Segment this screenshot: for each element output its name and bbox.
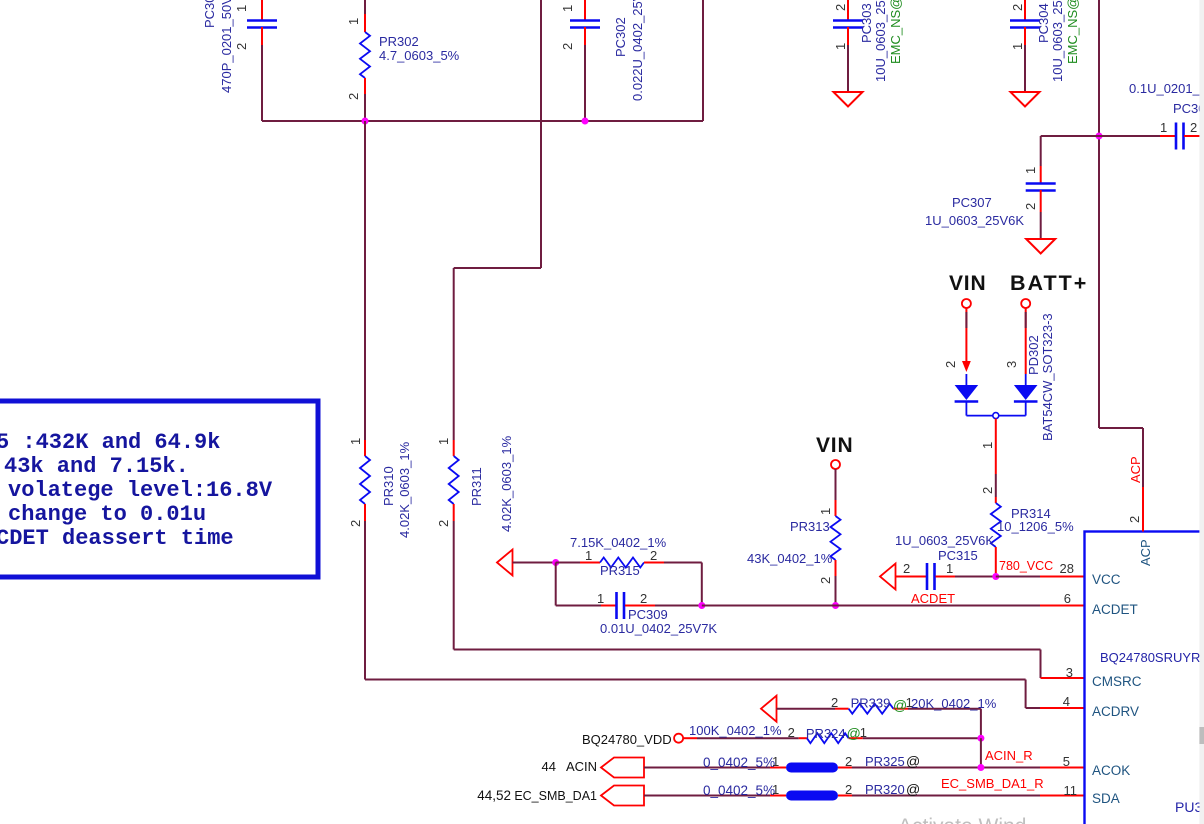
svg-text:2: 2 bbox=[833, 4, 848, 11]
capacitor PC315 1U_0603_25V6K bbox=[895, 533, 996, 590]
net arrow left of PR315 bbox=[497, 550, 513, 576]
svg-text:1: 1 bbox=[560, 5, 575, 12]
svg-text:20K_0402_1%: 20K_0402_1% bbox=[911, 696, 997, 711]
svg-text:44,52: 44,52 bbox=[477, 788, 511, 803]
resistor PR325 0_0402_5% zero-ohm bbox=[644, 753, 1040, 773]
svg-text:PC304: PC304 bbox=[1036, 3, 1051, 43]
svg-text:5: 5 bbox=[1063, 754, 1070, 769]
svg-text:3: 3 bbox=[1004, 361, 1019, 368]
svg-text:2: 2 bbox=[650, 548, 657, 563]
resistor PR310 4.02K_0603_1% bbox=[348, 121, 412, 680]
svg-text:3: 3 bbox=[1066, 665, 1073, 680]
svg-text:1: 1 bbox=[1023, 167, 1038, 174]
svg-text:CDET deassert time: CDET deassert time bbox=[0, 526, 234, 551]
capacitor PC301 470P_0201_50V bbox=[202, 0, 277, 121]
svg-text:PC309: PC309 bbox=[628, 607, 668, 622]
resistor PR302 4.7_0603_5% bbox=[346, 0, 460, 121]
svg-text:1: 1 bbox=[346, 18, 361, 25]
svg-text:BAT54CW_SOT323-3: BAT54CW_SOT323-3 bbox=[1040, 313, 1055, 441]
svg-text:2: 2 bbox=[831, 695, 838, 710]
svg-text:2: 2 bbox=[1023, 203, 1038, 210]
svg-text:BQ24780SRUYR: BQ24780SRUYR bbox=[1100, 650, 1200, 665]
op-amp U1 IC BQ24780SRUYR box bbox=[1085, 532, 1204, 824]
svg-text:0_0402_5%: 0_0402_5% bbox=[703, 755, 775, 770]
wire trunk x=1099 from top to ACP corner bbox=[1099, 0, 1143, 487]
svg-text:2: 2 bbox=[845, 754, 852, 769]
pin 5 ACOK stub bbox=[1040, 767, 1084, 769]
pin name SDA bbox=[1064, 783, 1120, 806]
svg-text:PR325: PR325 bbox=[865, 754, 905, 769]
note text line4 bbox=[8, 502, 206, 527]
svg-text:470P_0201_50V: 470P_0201_50V bbox=[219, 0, 234, 93]
svg-text:2: 2 bbox=[640, 591, 647, 606]
resistor PR313 43K_0402_1% bbox=[747, 469, 841, 606]
svg-text:volatege level:16.8V: volatege level:16.8V bbox=[8, 478, 273, 503]
svg-text:2: 2 bbox=[1010, 4, 1025, 11]
svg-text:4.7_0603_5%: 4.7_0603_5% bbox=[379, 48, 460, 63]
svg-text:0.022U_0402_25V: 0.022U_0402_25V bbox=[630, 0, 645, 101]
resistor PR314 10_1206_5% bbox=[991, 503, 1074, 577]
svg-text:2: 2 bbox=[845, 782, 852, 797]
svg-text:ACDRV: ACDRV bbox=[1092, 704, 1139, 719]
svg-text:1: 1 bbox=[436, 438, 451, 445]
svg-text:4.02K_0603_1%: 4.02K_0603_1% bbox=[397, 441, 412, 538]
junction PR315 left bbox=[552, 559, 559, 566]
pin 6 ACDET stub bbox=[1040, 605, 1084, 607]
pin name VCC bbox=[1060, 561, 1121, 587]
svg-text:2: 2 bbox=[1190, 120, 1197, 135]
svg-text:1: 1 bbox=[818, 508, 833, 515]
svg-text:PR311: PR311 bbox=[469, 467, 484, 506]
wire top bus GND-net horizontal y=121 bbox=[262, 120, 703, 122]
IC part number BQ24780SRUYR bbox=[1100, 650, 1200, 665]
wire PD302 pin1 down to PR314 bbox=[980, 419, 996, 503]
svg-text:PR320: PR320 bbox=[865, 782, 905, 797]
sheet connector ACIN bbox=[542, 758, 644, 778]
svg-text:PC315: PC315 bbox=[938, 548, 978, 563]
ground PC304 bbox=[1011, 92, 1040, 107]
junction VCC node bbox=[992, 573, 999, 580]
svg-text:Activate Wind: Activate Wind bbox=[898, 815, 1026, 824]
svg-text:6: 6 bbox=[1064, 591, 1071, 606]
svg-text:2: 2 bbox=[903, 561, 910, 576]
capacitor PC306 0.1U_0201 bbox=[1099, 81, 1204, 150]
svg-text:PC301: PC301 bbox=[202, 0, 217, 28]
svg-text:PR315: PR315 bbox=[600, 563, 640, 578]
resistor PR339 120K_0402_1% bbox=[777, 695, 997, 738]
svg-text:ACIN_R: ACIN_R bbox=[985, 748, 1033, 763]
port VIN middle bbox=[816, 434, 853, 469]
svg-text:2: 2 bbox=[346, 93, 361, 100]
svg-text:1U_0603_25V6K: 1U_0603_25V6K bbox=[895, 533, 994, 548]
svg-text:ACP: ACP bbox=[1128, 456, 1143, 483]
svg-text:ACOK: ACOK bbox=[1092, 763, 1130, 778]
junction PR313/ACDET bus bbox=[832, 602, 839, 609]
capacitor PC304 10U_0603_25V EMC_NS@ bbox=[1010, 0, 1080, 92]
svg-text:1: 1 bbox=[946, 561, 953, 576]
pin 28 VCC stub bbox=[1040, 576, 1084, 578]
ground PC307 bbox=[1026, 239, 1055, 254]
wire down to ACOK row bbox=[980, 738, 982, 767]
svg-text:0.01U_0402_25V7K: 0.01U_0402_25V7K bbox=[600, 621, 717, 636]
note text line5 bbox=[0, 526, 234, 551]
diode PD302 BAT54CW_SOT323-3 dual bbox=[955, 313, 1055, 441]
svg-text:PC307: PC307 bbox=[952, 195, 992, 210]
svg-text:EMC_NS@: EMC_NS@ bbox=[888, 0, 903, 64]
capacitor PC303 10U_0603_25V EMC_NS@ bbox=[833, 0, 903, 92]
svg-text:1U_0603_25V6K: 1U_0603_25V6K bbox=[925, 213, 1024, 228]
svg-text:2: 2 bbox=[348, 520, 363, 527]
svg-text:43k and 7.15k.: 43k and 7.15k. bbox=[4, 454, 189, 479]
svg-text:100K_0402_1%: 100K_0402_1% bbox=[689, 723, 782, 738]
svg-text:PR302: PR302 bbox=[379, 34, 419, 49]
svg-text:44: 44 bbox=[542, 759, 556, 774]
port VIN top bbox=[943, 272, 986, 372]
svg-text:1: 1 bbox=[860, 725, 867, 740]
resistor PR324 100K_0402_1% bbox=[689, 723, 981, 743]
wire arrow to junction bbox=[513, 562, 556, 564]
svg-text:11: 11 bbox=[1064, 783, 1078, 798]
svg-text:PC302: PC302 bbox=[613, 17, 628, 57]
junction PR324/PR339 bbox=[977, 735, 984, 742]
pin ACP top entry bbox=[1127, 456, 1153, 566]
resistor PR320 0_0402_5% zero-ohm bbox=[644, 781, 1040, 801]
wire ACDET bus bbox=[702, 605, 1040, 607]
net label EC_SMB_DA1_R bbox=[941, 776, 1044, 791]
wire vertical x=541 to corner (453.7,268) bbox=[454, 0, 541, 440]
svg-text:1: 1 bbox=[772, 782, 779, 797]
svg-text:ACP: ACP bbox=[1138, 539, 1153, 566]
svg-text:4: 4 bbox=[1063, 694, 1070, 709]
svg-text:@: @ bbox=[906, 753, 920, 769]
svg-text:2: 2 bbox=[1127, 516, 1142, 523]
svg-text:PC306: PC306 bbox=[1173, 101, 1204, 116]
svg-text:PR339: PR339 bbox=[851, 696, 891, 711]
ground PC303 bbox=[834, 92, 863, 107]
resistor PR315 7.15K_0402_1% bbox=[556, 535, 702, 606]
svg-text:2: 2 bbox=[818, 577, 833, 584]
svg-text:1: 1 bbox=[348, 438, 363, 445]
svg-text:EC_SMB_DA1_R: EC_SMB_DA1_R bbox=[941, 776, 1044, 791]
port BQ24780_VDD bbox=[582, 732, 697, 747]
svg-text:780_VCC: 780_VCC bbox=[999, 559, 1053, 573]
wire CMSRC run bbox=[454, 650, 1041, 679]
svg-text:2: 2 bbox=[980, 487, 995, 494]
wire VCC to pin 28 bbox=[996, 576, 1040, 578]
capacitor PC309 0.01U_0402_25V7K bbox=[556, 563, 718, 637]
svg-text:10U_0603_25V: 10U_0603_25V bbox=[873, 0, 888, 82]
svg-text:PR324: PR324 bbox=[806, 726, 846, 741]
svg-text:2: 2 bbox=[560, 43, 575, 50]
svg-text:10U_0603_25V: 10U_0603_25V bbox=[1050, 0, 1065, 82]
svg-text:VIN: VIN bbox=[816, 434, 853, 457]
pin name ACDET bbox=[1064, 591, 1138, 617]
junction PC302/bus bbox=[582, 118, 589, 125]
svg-text:1: 1 bbox=[980, 442, 995, 449]
svg-text:1: 1 bbox=[597, 591, 604, 606]
svg-text:EMC_NS@: EMC_NS@ bbox=[1065, 0, 1080, 64]
svg-text:VCC: VCC bbox=[1092, 572, 1121, 587]
note text line1 bbox=[0, 430, 220, 455]
capacitor PC302 0.022U_0402_25V bbox=[560, 0, 645, 121]
svg-text:2: 2 bbox=[943, 361, 958, 368]
resistor PR311 4.02K_0603_1% bbox=[436, 435, 514, 649]
wire top bus right riser x=703 bbox=[702, 0, 704, 121]
svg-text:@: @ bbox=[847, 725, 861, 741]
svg-text:PR310: PR310 bbox=[381, 466, 396, 506]
svg-text:EC_SMB_DA1: EC_SMB_DA1 bbox=[514, 789, 597, 803]
junction trunk/PC307 y=136 bbox=[1096, 133, 1103, 140]
sheet connector EC_SMB_DA1 bbox=[477, 786, 644, 806]
scrollbar thumb bbox=[1199, 727, 1204, 744]
svg-text:2: 2 bbox=[234, 43, 249, 50]
svg-text:1: 1 bbox=[1010, 43, 1025, 50]
svg-text:4.02K_0603_1%: 4.02K_0603_1% bbox=[499, 435, 514, 532]
net label ACIN_R bbox=[985, 748, 1033, 763]
svg-text:CMSRC: CMSRC bbox=[1092, 674, 1142, 689]
port BATT+ top bbox=[1004, 271, 1088, 374]
svg-text:1: 1 bbox=[833, 43, 848, 50]
svg-text:ACIN: ACIN bbox=[566, 759, 597, 774]
net arrow left of PC315 bbox=[880, 564, 896, 590]
svg-text:BATT+: BATT+ bbox=[1010, 271, 1088, 295]
svg-text:10_1206_5%: 10_1206_5% bbox=[997, 519, 1074, 534]
pin 3 CMSRC stub bbox=[1041, 677, 1085, 679]
pin name ACOK bbox=[1063, 754, 1131, 778]
svg-text:PD302: PD302 bbox=[1026, 335, 1041, 375]
svg-text:1: 1 bbox=[585, 548, 592, 563]
junction PC309 right bbox=[698, 602, 705, 609]
pin 11 SDA stub bbox=[1040, 795, 1084, 797]
pin name CMSRC bbox=[1066, 665, 1142, 689]
svg-text:@: @ bbox=[906, 781, 920, 797]
pin name ACDRV bbox=[1063, 694, 1139, 719]
svg-text:28: 28 bbox=[1060, 561, 1074, 576]
pin 4 ACDRV stub bbox=[1040, 707, 1084, 709]
svg-text:SDA: SDA bbox=[1092, 791, 1120, 806]
svg-text:2: 2 bbox=[436, 520, 451, 527]
svg-text:ACDET: ACDET bbox=[1092, 602, 1138, 617]
scrollbar track bbox=[1199, 0, 1204, 824]
svg-text:0.1U_0201_1: 0.1U_0201_1 bbox=[1129, 81, 1204, 96]
junction ACIN_R bbox=[977, 764, 984, 771]
svg-text:5 :432K and 64.9k: 5 :432K and 64.9k bbox=[0, 430, 220, 455]
junction PR302/bus bbox=[362, 118, 369, 125]
watermark Activate Windows bbox=[898, 815, 1026, 824]
capacitor PC307 1U_0603_25V6K bbox=[925, 136, 1099, 239]
svg-text:ACDET: ACDET bbox=[911, 591, 955, 606]
svg-text:VIN: VIN bbox=[949, 272, 986, 295]
svg-text:1: 1 bbox=[772, 754, 779, 769]
svg-text:PC303: PC303 bbox=[859, 3, 874, 43]
svg-text:1: 1 bbox=[234, 5, 249, 12]
net arrow left of PR339 bbox=[761, 696, 777, 722]
note box blue border bbox=[0, 401, 318, 577]
svg-text:2: 2 bbox=[788, 725, 795, 740]
net label ACDET bbox=[911, 591, 955, 606]
note text line3 bbox=[8, 478, 273, 503]
svg-text:1: 1 bbox=[1160, 120, 1167, 135]
svg-text:change to 0.01u: change to 0.01u bbox=[8, 502, 206, 527]
designator PU30 bbox=[1175, 799, 1204, 815]
wire ACDRV run bbox=[365, 680, 1040, 709]
svg-text:0_0402_5%: 0_0402_5% bbox=[703, 783, 775, 798]
svg-text:43K_0402_1%: 43K_0402_1% bbox=[747, 551, 833, 566]
svg-text:BQ24780_VDD: BQ24780_VDD bbox=[582, 732, 672, 747]
svg-text:PR313: PR313 bbox=[790, 519, 830, 534]
note text line2 bbox=[4, 454, 189, 479]
net label 780_VCC bbox=[999, 559, 1053, 573]
